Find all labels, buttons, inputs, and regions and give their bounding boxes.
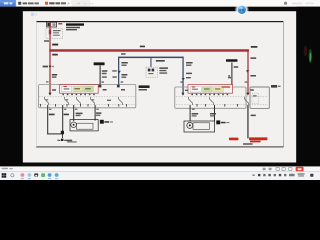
- wire blue vertical left drop: [118, 57, 119, 85]
- inner box right compressor: [193, 123, 210, 130]
- connector tab right of left box: [100, 120, 113, 124]
- red annotation bottom right: [229, 137, 267, 144]
- ground wire joining bar: [47, 133, 63, 134]
- pin row under left busbar: [62, 94, 94, 95]
- compressor box right: [184, 121, 215, 132]
- pin ticks on relay box bottom edges: [40, 104, 238, 107]
- labels on right red vertical: [246, 57, 256, 76]
- fuse strip right (red busbar): [188, 85, 233, 94]
- wire label above bus mid: [140, 46, 145, 48]
- glow right redraw: [304, 46, 312, 64]
- ground connector square: [61, 131, 64, 134]
- red logo in strip: [296, 167, 304, 172]
- taskbar app icons: [21, 173, 59, 177]
- wire drop to compressor left 2: [95, 105, 96, 121]
- left relay box name label: [139, 85, 150, 90]
- wire labels below left box: [49, 112, 102, 116]
- relay box right (dashed outline): [175, 87, 268, 108]
- desktop black background: [0, 0, 320, 180]
- tab 2 (active, jpg file): [44, 0, 72, 7]
- wire drop right pin2: [214, 105, 215, 121]
- wire label below bus: [52, 54, 58, 56]
- connector (dashed box) under mid drop: [146, 67, 157, 77]
- wire labels beside mid wire: [102, 70, 108, 74]
- power bus (thick red horizontal): [49, 49, 249, 51]
- fuse box (dashed): [46, 28, 63, 38]
- wire drop right red-return: [247, 105, 248, 138]
- relay box left (dashed outline): [39, 85, 136, 108]
- blue app menu button: [0, 0, 16, 7]
- MICU label tab: [271, 85, 281, 88]
- tab-strip controls: [78, 3, 80, 5]
- wire black vertical mid-left: [100, 66, 101, 85]
- browser tab bar: [0, 0, 320, 7]
- connector arrow into relay area (right): [246, 93, 249, 96]
- video black band below page: [0, 163, 320, 167]
- ground stem: [61, 134, 64, 138]
- wire blue vertical right drop: [182, 57, 183, 96]
- red rating label beside connector: [58, 23, 62, 25]
- labels right of dashed connector: [159, 67, 168, 73]
- floating assistant ball: [235, 3, 249, 17]
- wire drop left pin1: [47, 105, 48, 134]
- fuse F1 (red): [49, 30, 61, 36]
- wire black vertical mid-right: [231, 62, 232, 85]
- wire red vertical from fuse: [49, 22, 50, 95]
- connector tab right of right box: [216, 120, 229, 124]
- dark bar under tabs: [0, 7, 320, 11]
- fuse strip left (red busbar with fuses): [60, 85, 99, 94]
- pin labels at left box wire entries: [103, 89, 125, 91]
- wire labels below right box: [192, 109, 256, 117]
- white page of wiring-diagram viewer: [23, 11, 297, 162]
- wire labels mid-left: [52, 74, 57, 78]
- connector arrow blue wire into right relay box: [181, 93, 184, 96]
- labels on left blue vertical: [118, 62, 128, 78]
- left black column: [0, 7, 23, 167]
- wire drop left pin2: [62, 105, 63, 131]
- thermal protector circle left: [71, 122, 77, 128]
- battery fuse label text: [66, 23, 84, 30]
- taskbar: [0, 171, 320, 180]
- relay switches left box: [45, 97, 123, 105]
- tab bar bottom hairline: [16, 5, 320, 8]
- diagram frame left border: [35, 21, 38, 147]
- tab 1: [17, 0, 44, 6]
- connector C2 on red wire: [43, 66, 54, 69]
- start button: [2, 173, 7, 178]
- connector squares at left box wire entries: [99, 85, 120, 88]
- pin row under right busbar: [191, 94, 228, 95]
- compressor box left: [70, 120, 98, 131]
- system tray: [252, 173, 313, 176]
- signal bus (dark blue horizontal): [118, 57, 184, 59]
- ground label G201: [67, 140, 73, 142]
- connector arrow into relay box (left): [49, 93, 52, 96]
- thermal protector circle right: [187, 122, 193, 128]
- wire red vertical right (from bus corner): [247, 49, 248, 93]
- wire labels above left relay box: [46, 76, 123, 90]
- wire drop to compressor left: [73, 105, 74, 121]
- diagram frame bottom border: [36, 146, 284, 147]
- pin numbers below left relay box: [49, 109, 99, 110]
- connector box C101 at top: [47, 22, 57, 27]
- faint viewer toolbar icon top-left of page: [31, 13, 38, 17]
- diagram frame right border: [282, 21, 285, 147]
- compressor clutch label: [226, 59, 238, 62]
- running app underlines: [21, 177, 58, 180]
- label on blue bus: [156, 60, 165, 62]
- diagram frame top border: [36, 21, 284, 22]
- wire drop right pin1: [190, 105, 191, 121]
- labels on right blue vertical: [182, 62, 193, 81]
- label right of bus corner: [251, 46, 258, 48]
- wire label above bus: [52, 44, 58, 46]
- right black column: [296, 7, 320, 167]
- label above signal bus corner: [121, 53, 126, 55]
- labels beside mid-right wire: [228, 66, 238, 77]
- wire labels above right relay box: [180, 77, 253, 91]
- A/C diode label: [94, 62, 105, 65]
- top right faint controls: [284, 2, 287, 5]
- search icon: [11, 174, 14, 177]
- strip icons right: [263, 168, 292, 171]
- pin numbers left box: [46, 99, 111, 101]
- ground symbol G201: [57, 139, 67, 141]
- cpu text left: [2, 168, 13, 170]
- status strip above taskbar: [0, 166, 320, 171]
- MICU solid box right: [250, 87, 269, 108]
- wire blue mid drop: [150, 58, 151, 67]
- relay switches right box: [189, 97, 249, 105]
- wire label WHT: [44, 40, 49, 42]
